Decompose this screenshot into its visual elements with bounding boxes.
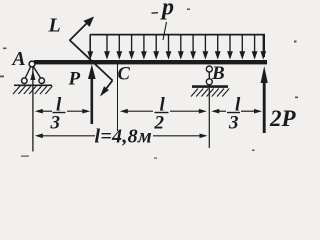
support A hatching [13,86,52,94]
small arrow on support A centre line [30,70,35,80]
svg-text:B: B [211,63,225,84]
paper background [0,0,304,162]
svg-text:p: p [160,0,174,21]
dimension l=4,8m: left arrow [35,134,95,139]
svg-text:P: P [68,69,81,90]
support B link [208,72,210,80]
distributed load left edge [89,35,91,59]
dimension l/3 (left): right arrow [67,109,90,114]
dimension l/3 (left): left arrow [35,109,52,114]
extension line at B [208,88,210,148]
distributed load arrows [87,35,266,60]
svg-text:L: L [48,15,61,37]
dimension l/2: left arrow [120,109,153,114]
support B ground line [192,85,228,88]
dimension l/2: fraction [154,95,169,134]
svg-text:3: 3 [228,113,239,134]
svg-text:l=4,8м: l=4,8м [95,126,152,148]
couple L lower arrow [100,81,113,97]
couple L upper arrow [70,17,95,41]
distributed load right edge [263,35,265,57]
support B lower circle [206,79,212,85]
dimension l/3 (right): right arrow [241,109,262,114]
support A triangle legs [25,66,32,80]
svg-text:3: 3 [50,113,61,134]
support B: upper circle [206,66,212,72]
svg-text:A: A [11,49,26,70]
dimension l/3 (right): fraction [227,95,241,134]
leader line from p [163,22,167,40]
beam AB [34,60,267,64]
svg-text:C: C [118,65,131,85]
dimension l/3 (left): fraction [50,95,66,134]
dimension l=4,8m: right arrow [153,134,208,139]
support A: pin circle [29,61,35,67]
svg-text:2: 2 [154,113,165,134]
force P (upward under beam) [88,64,96,124]
dimension l/3 (right): left arrow [211,109,226,114]
force 2P at right end [261,66,268,133]
distributed load p: top line [90,34,265,36]
support A ground line [14,84,52,86]
couple L lever [70,40,113,81]
extension line at A [32,66,34,152]
support B hatching [191,89,229,97]
scan speckles [0,9,298,159]
dimension l/2: right arrow [170,109,207,114]
svg-text:2P: 2P [269,106,297,131]
node C tick line [117,64,119,131]
dash left of p [152,12,159,15]
support A base circles [22,78,28,84]
